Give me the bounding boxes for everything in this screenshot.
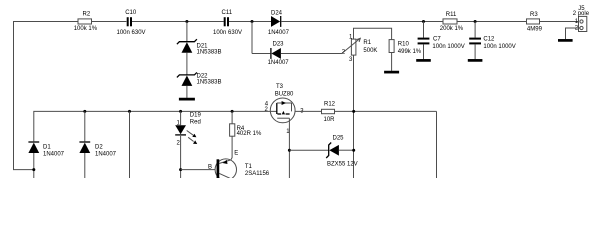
ground below J5 xyxy=(558,39,573,42)
svg-text:C7: C7 xyxy=(433,36,441,42)
svg-text:T1: T1 xyxy=(245,164,253,170)
svg-text:100k 1%: 100k 1% xyxy=(74,26,98,32)
resistor R10 xyxy=(389,40,422,56)
svg-text:D23: D23 xyxy=(273,42,285,48)
node junction D19 bottom xyxy=(179,168,182,171)
wire R12 to junction xyxy=(335,110,437,112)
wire R1 pin3 down xyxy=(353,55,355,178)
svg-text:BUZ80: BUZ80 xyxy=(275,92,294,98)
node junction C12 xyxy=(474,20,477,23)
resistor R11 xyxy=(440,12,464,32)
svg-text:500K: 500K xyxy=(363,48,377,54)
node junction D2 top xyxy=(83,110,86,113)
wire T3 source down xyxy=(288,123,290,178)
capacitor C10 xyxy=(117,10,146,36)
svg-text:4M99: 4M99 xyxy=(527,26,543,32)
wire R3 to J5 xyxy=(540,21,580,23)
wire D25 to junction xyxy=(339,149,354,151)
svg-text:10R: 10R xyxy=(324,117,336,123)
connector J5 xyxy=(573,6,590,31)
resistor R12 xyxy=(322,101,336,123)
capacitor C12 xyxy=(469,22,516,60)
wire R11 to R3 xyxy=(457,21,527,23)
wire D24 to C7 junction (output rail) xyxy=(281,21,443,23)
gate rail wire (D1 top to T3) xyxy=(34,111,277,141)
svg-text:2SA1156: 2SA1156 xyxy=(245,171,270,177)
svg-text:C10: C10 xyxy=(125,10,137,16)
svg-text:1N4007: 1N4007 xyxy=(268,60,290,66)
resistor R4 xyxy=(230,111,262,137)
svg-text:D25: D25 xyxy=(333,135,345,141)
svg-text:1N4007: 1N4007 xyxy=(43,151,65,157)
resistor R2 xyxy=(74,12,98,32)
capacitor C7 xyxy=(418,22,465,60)
svg-text:D24: D24 xyxy=(271,11,283,17)
node junction R4 top xyxy=(231,110,234,113)
svg-text:R3: R3 xyxy=(530,12,538,18)
zener diode D21 xyxy=(177,22,222,56)
svg-text:100n 1000V: 100n 1000V xyxy=(432,44,464,50)
svg-text:2 pole: 2 pole xyxy=(573,11,590,17)
svg-text:D21: D21 xyxy=(197,43,209,49)
wire to D23 xyxy=(252,53,270,55)
svg-text:T3: T3 xyxy=(276,84,284,90)
resistor R3 xyxy=(527,12,543,33)
zener diode D25 xyxy=(326,135,357,167)
svg-text:1N5383B: 1N5383B xyxy=(197,50,222,56)
svg-text:B: B xyxy=(208,164,212,170)
node junction T3 source / D25 xyxy=(288,149,291,152)
svg-text:100n 630V: 100n 630V xyxy=(117,30,146,36)
svg-text:R11: R11 xyxy=(446,12,457,18)
ground below R10 xyxy=(384,71,399,74)
svg-text:402R 1%: 402R 1% xyxy=(237,131,262,137)
svg-text:1N5383B: 1N5383B xyxy=(197,80,222,86)
wire R1 pin1 to R10 top bridge xyxy=(354,28,392,39)
transistor T3 (MOSFET) xyxy=(265,84,305,135)
svg-text:100n 630V: 100n 630V xyxy=(213,30,242,36)
svg-text:R2: R2 xyxy=(83,12,91,18)
wire C10 to C11 xyxy=(132,21,224,23)
svg-text:100n 1000V: 100n 1000V xyxy=(483,44,515,50)
svg-text:C11: C11 xyxy=(222,10,233,16)
svg-text:D19: D19 xyxy=(190,113,202,119)
transistor T1 xyxy=(208,151,270,181)
wire D23 branch vertical xyxy=(251,22,253,54)
LED D19 xyxy=(175,111,201,178)
node junction D19 top xyxy=(179,110,182,113)
ground below C7 xyxy=(416,59,431,62)
svg-text:R12: R12 xyxy=(324,101,336,107)
wire R2 to C10 xyxy=(92,21,127,23)
ground below D22 xyxy=(179,98,195,101)
node junction D1 bottom xyxy=(32,168,35,171)
svg-text:499k 1%: 499k 1% xyxy=(398,49,422,55)
wire D19 to T1 base xyxy=(181,169,216,171)
wire J5 pin2 to ground xyxy=(566,28,580,39)
svg-text:1N4007: 1N4007 xyxy=(95,151,117,157)
diode D23 xyxy=(268,42,290,66)
wire right drop xyxy=(436,111,438,178)
wire R10 to ground xyxy=(391,53,393,71)
svg-text:1N4007: 1N4007 xyxy=(268,30,290,36)
wire T3 drain to R12 xyxy=(295,110,321,112)
wire C11 to D24 xyxy=(229,21,271,23)
wire D21 to D22 xyxy=(186,53,188,75)
node junction D23/D24 left xyxy=(251,20,254,23)
ground below C12 xyxy=(468,59,483,62)
svg-text:Red: Red xyxy=(190,120,201,126)
svg-text:E: E xyxy=(234,151,238,157)
wire source row to D25 xyxy=(289,149,328,151)
wire D23 to R1 wiper xyxy=(281,53,342,55)
wire R4 to T1 emitter xyxy=(231,136,232,159)
wire drop at x=129.5 xyxy=(129,111,131,178)
potentiometer R1 xyxy=(342,34,378,63)
svg-text:R10: R10 xyxy=(398,41,410,47)
diode D24 xyxy=(268,11,290,36)
node junction R12/R1 xyxy=(352,110,355,113)
svg-text:C12: C12 xyxy=(483,36,495,42)
svg-text:D22: D22 xyxy=(197,73,209,79)
capacitor C11 xyxy=(213,10,242,36)
node junction D21 column xyxy=(185,20,188,23)
zener diode D22 xyxy=(177,72,222,86)
wire top rail left segment xyxy=(14,22,79,170)
node junction C7 xyxy=(422,20,425,23)
svg-text:BZX55 12V: BZX55 12V xyxy=(327,162,358,168)
svg-text:R1: R1 xyxy=(363,40,371,46)
svg-text:200k 1%: 200k 1% xyxy=(440,26,464,32)
svg-text:D1: D1 xyxy=(43,145,51,151)
svg-text:D2: D2 xyxy=(95,145,103,151)
diode D1 xyxy=(28,142,64,178)
wire D22 to ground xyxy=(186,86,188,98)
node junction drop wire xyxy=(128,110,131,113)
diode D2 xyxy=(79,111,116,178)
node junction D25/R1 pin3 xyxy=(352,149,355,152)
